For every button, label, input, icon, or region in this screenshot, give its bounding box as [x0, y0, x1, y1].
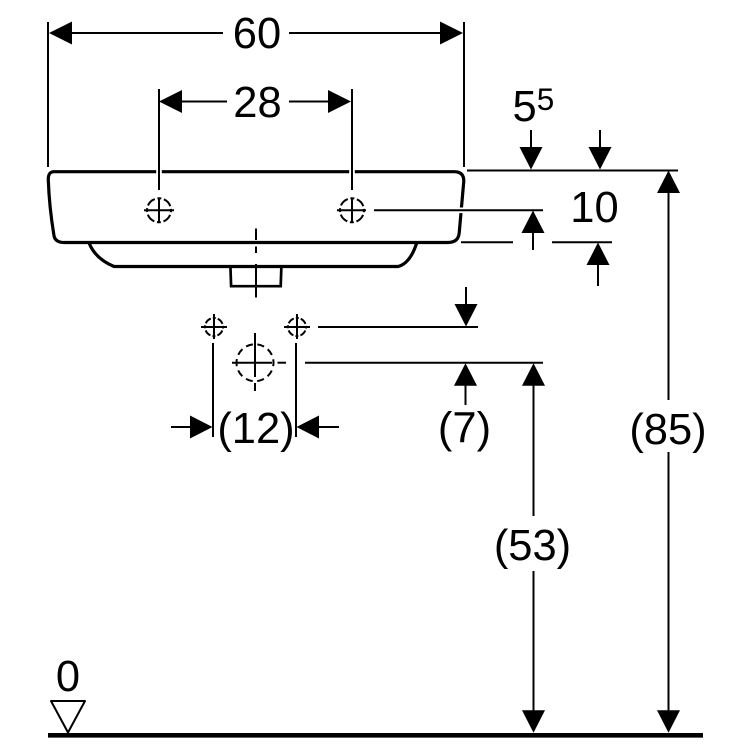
svg-text:28: 28	[233, 79, 281, 127]
svg-text:(7): (7)	[438, 405, 491, 453]
svg-text:(53): (53)	[494, 522, 571, 570]
svg-text:10: 10	[570, 184, 618, 232]
svg-text:(85): (85)	[629, 406, 706, 454]
svg-text:(12): (12)	[217, 405, 294, 453]
svg-text:60: 60	[233, 10, 281, 58]
svg-text:0: 0	[56, 653, 80, 701]
